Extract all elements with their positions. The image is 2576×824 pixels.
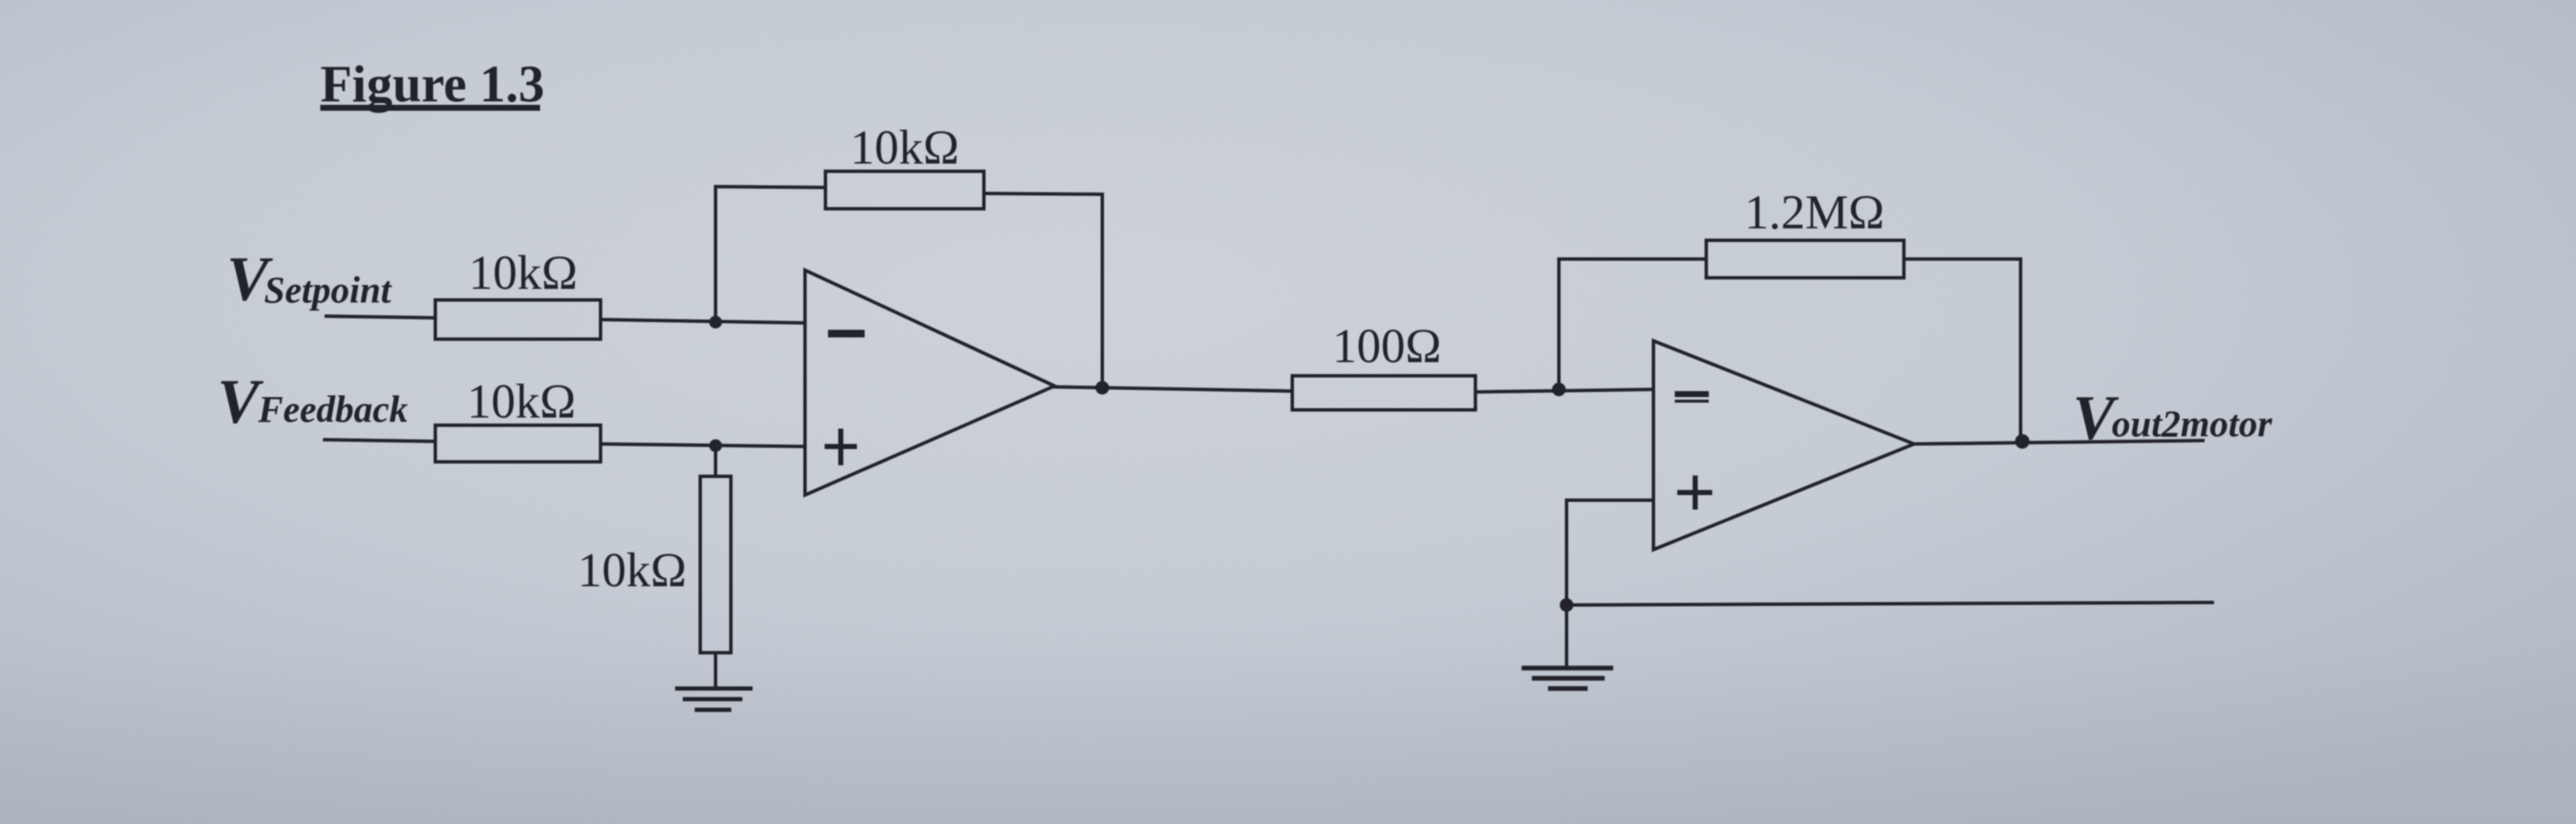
wire noninverting down to ground rail xyxy=(1565,500,1568,605)
wire feedback vertical down to output node xyxy=(1101,194,1104,387)
U1 noninverting input plus sign xyxy=(827,431,854,463)
svg-text:10kΩ: 10kΩ xyxy=(467,375,576,429)
U2 noninverting input plus sign xyxy=(1680,478,1710,507)
ground (left) xyxy=(677,689,750,710)
wire R2 to opamp1 noninverting input xyxy=(601,444,805,447)
wire R1 to opamp1 inverting input xyxy=(601,320,805,323)
svg-text:Feedback: Feedback xyxy=(257,389,408,430)
junction U1 output node xyxy=(1095,381,1109,395)
wire U1 output xyxy=(1055,387,1292,391)
node Vfeedback label xyxy=(217,367,408,437)
resistor R5 10k to ground (vertical) xyxy=(700,476,731,653)
junction inverting node xyxy=(710,316,722,329)
svg-text:1.2MΩ: 1.2MΩ xyxy=(1745,186,1884,239)
resistor R1 10k (Vsetpoint input) xyxy=(435,300,601,339)
wire R4 vertical down to output node xyxy=(2019,259,2022,441)
op-amp U1 xyxy=(805,270,1055,495)
resistor RF 10k (opamp1 feedback) xyxy=(825,171,984,209)
svg-text:100Ω: 100Ω xyxy=(1332,320,1441,373)
junction ground rail node xyxy=(1560,598,1573,612)
wire RF right to output vertical xyxy=(984,193,1102,194)
op-amp U2 xyxy=(1653,341,1914,550)
node Vsetpoint label xyxy=(227,245,393,314)
ground (right) xyxy=(1524,668,1611,689)
node Vout2motor label xyxy=(2073,383,2273,453)
junction opamp2 inverting node xyxy=(1552,383,1566,396)
svg-text:10kΩ: 10kΩ xyxy=(850,121,959,175)
wire noninverting node down to R5 xyxy=(714,446,717,476)
wire ground stem xyxy=(1565,605,1568,666)
svg-text:10kΩ: 10kΩ xyxy=(469,246,578,300)
U1 inverting input minus sign xyxy=(828,330,865,337)
svg-text:out2motor: out2motor xyxy=(2112,403,2273,445)
wire R4 right to output vertical xyxy=(1904,257,2021,261)
wire inverting node up to R4 xyxy=(1557,259,1561,389)
wire R5 to ground xyxy=(714,653,717,687)
wire top to R4 left xyxy=(1559,257,1706,261)
wire top to RF left xyxy=(716,187,825,187)
title Figure 1.3 xyxy=(320,56,544,113)
wire U2 noninverting input xyxy=(1567,498,1653,502)
wire ground rail xyxy=(1567,602,2212,605)
wire Vsetpoint input lead xyxy=(326,316,435,318)
svg-text:V: V xyxy=(217,367,264,437)
resistor R3 100 ohm xyxy=(1292,376,1475,410)
wire inverting node up to feedback xyxy=(714,187,717,322)
svg-text:Figure 1.3: Figure 1.3 xyxy=(320,56,544,113)
wire R3 to opamp2 inverting input xyxy=(1475,389,1653,392)
svg-text:Setpoint: Setpoint xyxy=(264,269,393,311)
resistor R2 10k (Vfeedback input) xyxy=(435,425,601,462)
junction U2 output node xyxy=(2015,435,2030,449)
wire U2 output xyxy=(1914,441,2203,444)
junction noninverting node xyxy=(710,440,722,452)
resistor R4 1.2M (opamp2 feedback) xyxy=(1706,240,1904,278)
wire Vfeedback input lead xyxy=(325,440,435,441)
U2 inverting input mark xyxy=(1675,391,1709,403)
svg-text:10kΩ: 10kΩ xyxy=(578,544,687,597)
